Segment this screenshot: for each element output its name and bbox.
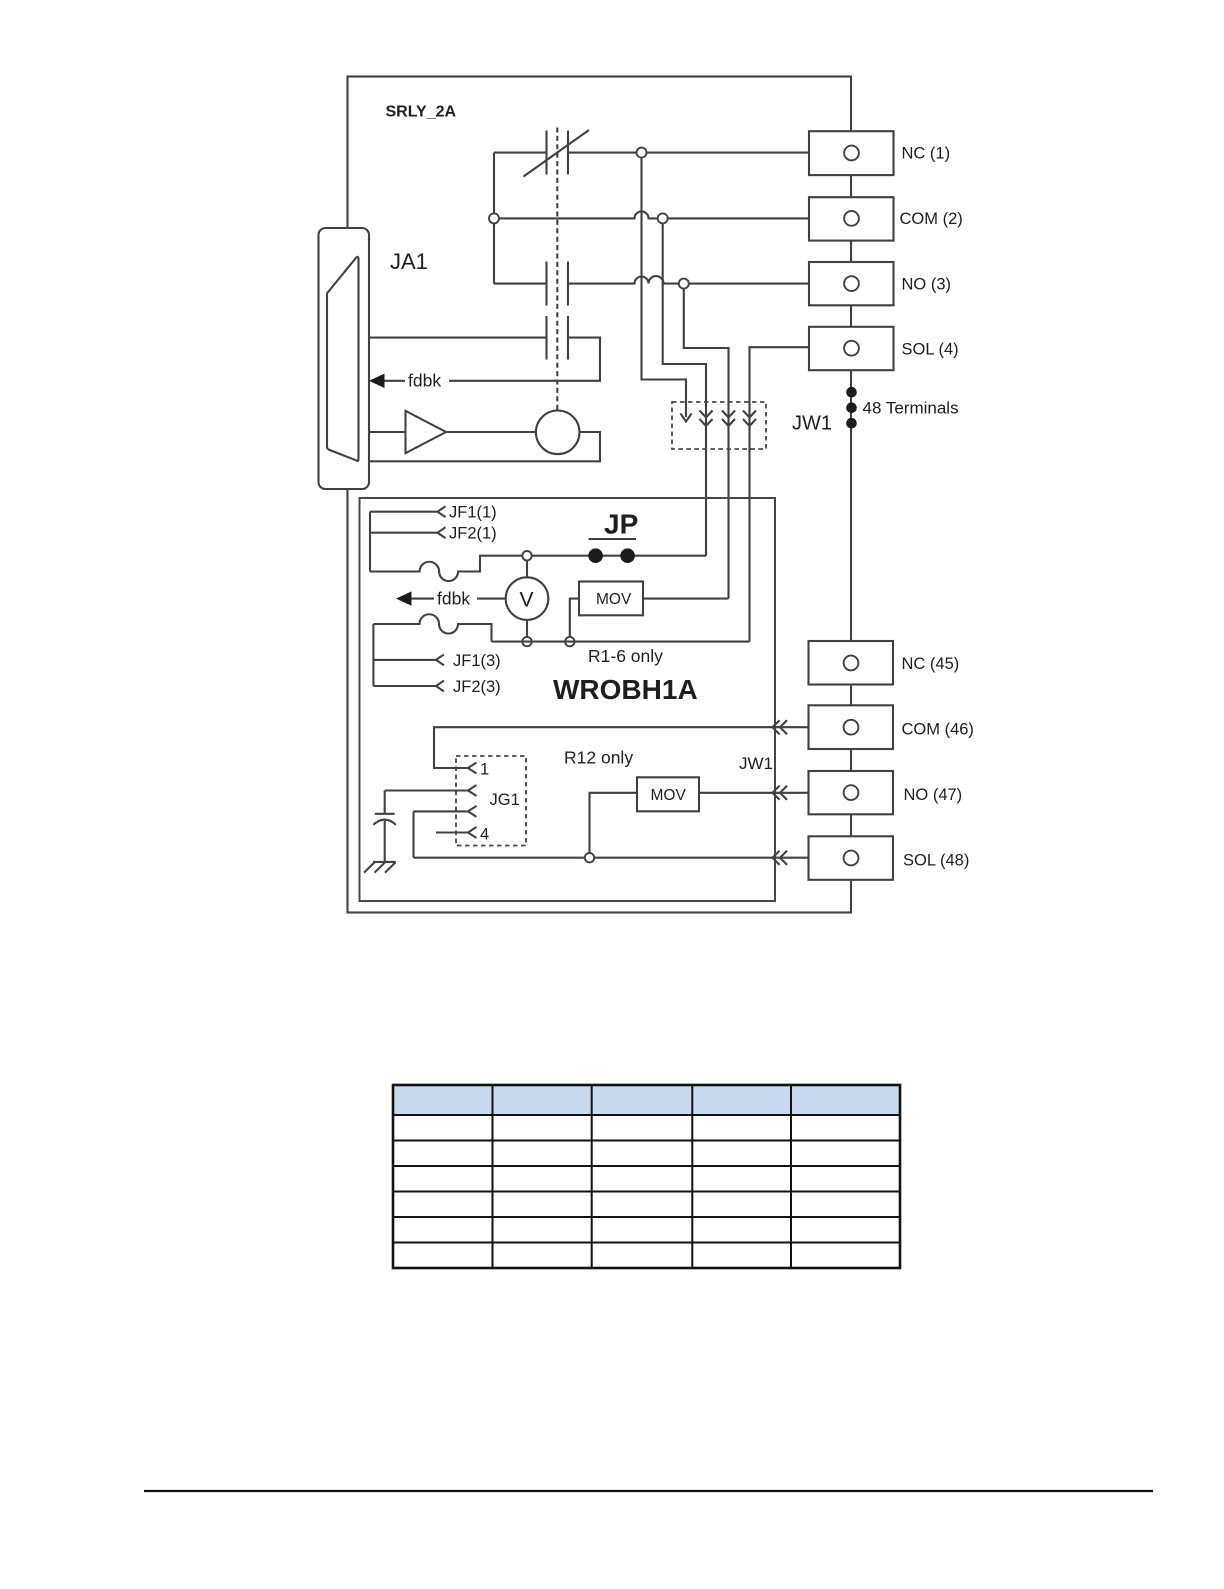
- wire JF(1) bracket vertical: [369, 512, 371, 572]
- outer enclosure SRLY_2A: [348, 77, 852, 913]
- svg-text:JG1: JG1: [490, 791, 520, 809]
- node on bracket COM: [489, 213, 499, 223]
- wire COM row horizontal with hump: [494, 211, 809, 218]
- mechanical link dashed line: [556, 128, 558, 412]
- wire amplifier input: [369, 431, 406, 433]
- wire left bracket vertical: [493, 153, 495, 284]
- svg-text:JF1(3): JF1(3): [453, 652, 501, 670]
- wire bottom bus SOL(48): [414, 857, 809, 859]
- wire NC row horizontal: [494, 152, 809, 154]
- wire squiggle JF(3): [373, 614, 491, 641]
- wire branch COM to JP: [663, 218, 706, 555]
- fdbk arrow (lower): [396, 591, 412, 605]
- wire MOV right lead: [643, 598, 729, 600]
- stub JF1(1): [370, 506, 446, 517]
- capacitor C1 lead: [384, 791, 386, 814]
- node V meter bottom: [522, 637, 531, 646]
- node bottom bus: [585, 853, 594, 862]
- data table: [393, 1085, 900, 1268]
- svg-text:MOV: MOV: [651, 787, 687, 804]
- terminal NO (47): [809, 771, 894, 814]
- svg-text:4: 4: [480, 826, 489, 844]
- svg-text:fdbk: fdbk: [408, 371, 441, 391]
- terminal NO (3): [809, 262, 894, 305]
- wire NO row horizontal with two humps: [494, 276, 809, 284]
- JP underline: [589, 538, 637, 540]
- JG1 pin 1 chevron: [468, 763, 477, 774]
- varistor MOV (lower): [637, 777, 699, 811]
- wire V meter lower lead: [526, 620, 528, 637]
- wire lower bus row: [492, 641, 750, 643]
- svg-text:48 Terminals: 48 Terminals: [863, 399, 959, 418]
- chevron arrows COM(46): [773, 720, 788, 734]
- node V meter top: [522, 551, 531, 560]
- label fdbk (upper): [405, 370, 449, 390]
- dashed coupling box JW1: [672, 402, 766, 449]
- svg-text:WROBH1A: WROBH1A: [553, 674, 698, 705]
- wire fdbk to V: [411, 598, 506, 600]
- capacitor C1 curved plate: [373, 820, 396, 825]
- svg-text:SRLY_2A: SRLY_2A: [386, 104, 457, 121]
- JG1 pin 2 wire: [385, 785, 477, 796]
- JG1 pin 3 wire: [414, 806, 477, 817]
- svg-text:JA1: JA1: [390, 249, 428, 274]
- jumper JP pin 2: [620, 548, 635, 563]
- capacitor C1 top plate: [375, 813, 395, 815]
- svg-text:JF2(3): JF2(3): [453, 678, 501, 696]
- terminal COM (46): [809, 705, 894, 749]
- capacitor C1 lower lead: [384, 821, 386, 862]
- footer rule: [144, 1490, 1153, 1492]
- stub JF2(1): [370, 527, 446, 538]
- relay contact K1 NC plates: [547, 131, 569, 175]
- wire MOV left lead: [570, 599, 579, 637]
- wire pin3 to bottom bus: [412, 811, 414, 857]
- relay contact K1 fdbk plates: [547, 316, 569, 360]
- chevron arrows in coupling box: [700, 411, 713, 427]
- jumper JP pin 1: [588, 548, 603, 563]
- terminal NC (45): [809, 641, 894, 685]
- wire JP row: [532, 555, 707, 557]
- svg-text:COM (2): COM (2): [900, 210, 963, 228]
- terminal SOL (4): [809, 327, 894, 370]
- wire V meter upper lead: [526, 560, 528, 577]
- svg-text:SOL (48): SOL (48): [903, 852, 969, 870]
- stub JF1(3): [373, 655, 444, 666]
- terminal NC (1): [809, 131, 894, 175]
- amplifier buffer: [406, 411, 447, 453]
- wire branch NO to MOV: [684, 284, 729, 599]
- node on NO row: [679, 279, 689, 289]
- terminal COM (2): [809, 197, 894, 240]
- chevron arrows SOL(48): [773, 851, 788, 865]
- svg-text:JF1(1): JF1(1): [449, 504, 497, 522]
- JG1 pin 4 wire: [436, 827, 477, 838]
- svg-text:COM (46): COM (46): [902, 721, 974, 739]
- fdbk arrowhead: [369, 374, 385, 388]
- label fdbk (lower): [434, 588, 477, 608]
- wire amplifier output: [446, 431, 536, 433]
- svg-text:JP: JP: [604, 509, 638, 540]
- wire fdbk contact right: [383, 338, 600, 381]
- inner board WROBH1A: [360, 498, 776, 901]
- JW1 terminal dots: [846, 387, 857, 398]
- wire squiggle to JP row: [370, 556, 523, 581]
- svg-text:JF2(1): JF2(1): [449, 525, 497, 543]
- svg-text:NO (47): NO (47): [904, 786, 963, 804]
- stub JF2(3): [373, 681, 444, 692]
- wire MOV to NO(47): [699, 792, 809, 794]
- svg-text:NC (45): NC (45): [902, 655, 960, 673]
- connector JA1 body: [319, 228, 370, 489]
- svg-text:MOV: MOV: [596, 591, 632, 608]
- svg-text:NO (3): NO (3): [902, 276, 952, 294]
- svg-text:R1-6 only: R1-6 only: [588, 646, 663, 666]
- node on NC row: [637, 148, 647, 158]
- wire node to MOV (lower): [590, 793, 638, 853]
- connector JA1 inner D-shell: [327, 257, 359, 461]
- svg-text:1: 1: [480, 761, 489, 779]
- connector JG1 dashed box: [456, 756, 526, 846]
- varistor MOV (upper): [579, 582, 643, 616]
- svg-text:fdbk: fdbk: [437, 589, 470, 609]
- wire COM(46) feed: [434, 727, 809, 768]
- chevron arrows NO(47): [773, 786, 788, 800]
- ground symbol: [373, 861, 396, 863]
- svg-text:V: V: [520, 589, 534, 612]
- relay contact K1 NO plates: [547, 262, 569, 306]
- wire fdbk contact left: [369, 337, 547, 339]
- node MOV branch: [565, 637, 574, 646]
- node on COM row: [658, 213, 668, 223]
- coil circle: [536, 411, 580, 455]
- voltmeter V: [506, 577, 549, 620]
- wire JF(3) bracket vertical: [372, 624, 374, 686]
- arrowhead down: [681, 414, 692, 422]
- terminal SOL (48): [809, 836, 894, 880]
- wire coil return loop: [369, 432, 600, 461]
- svg-text:NC (1): NC (1): [902, 145, 951, 163]
- wire SOL row: [750, 347, 810, 641]
- NC slash: [524, 130, 590, 177]
- svg-text:SOL (4): SOL (4): [902, 341, 959, 359]
- svg-text:JW1: JW1: [739, 754, 773, 773]
- svg-text:JW1: JW1: [792, 413, 832, 435]
- wire branch NC to arrow: [642, 153, 687, 417]
- svg-text:R12 only: R12 only: [564, 748, 633, 768]
